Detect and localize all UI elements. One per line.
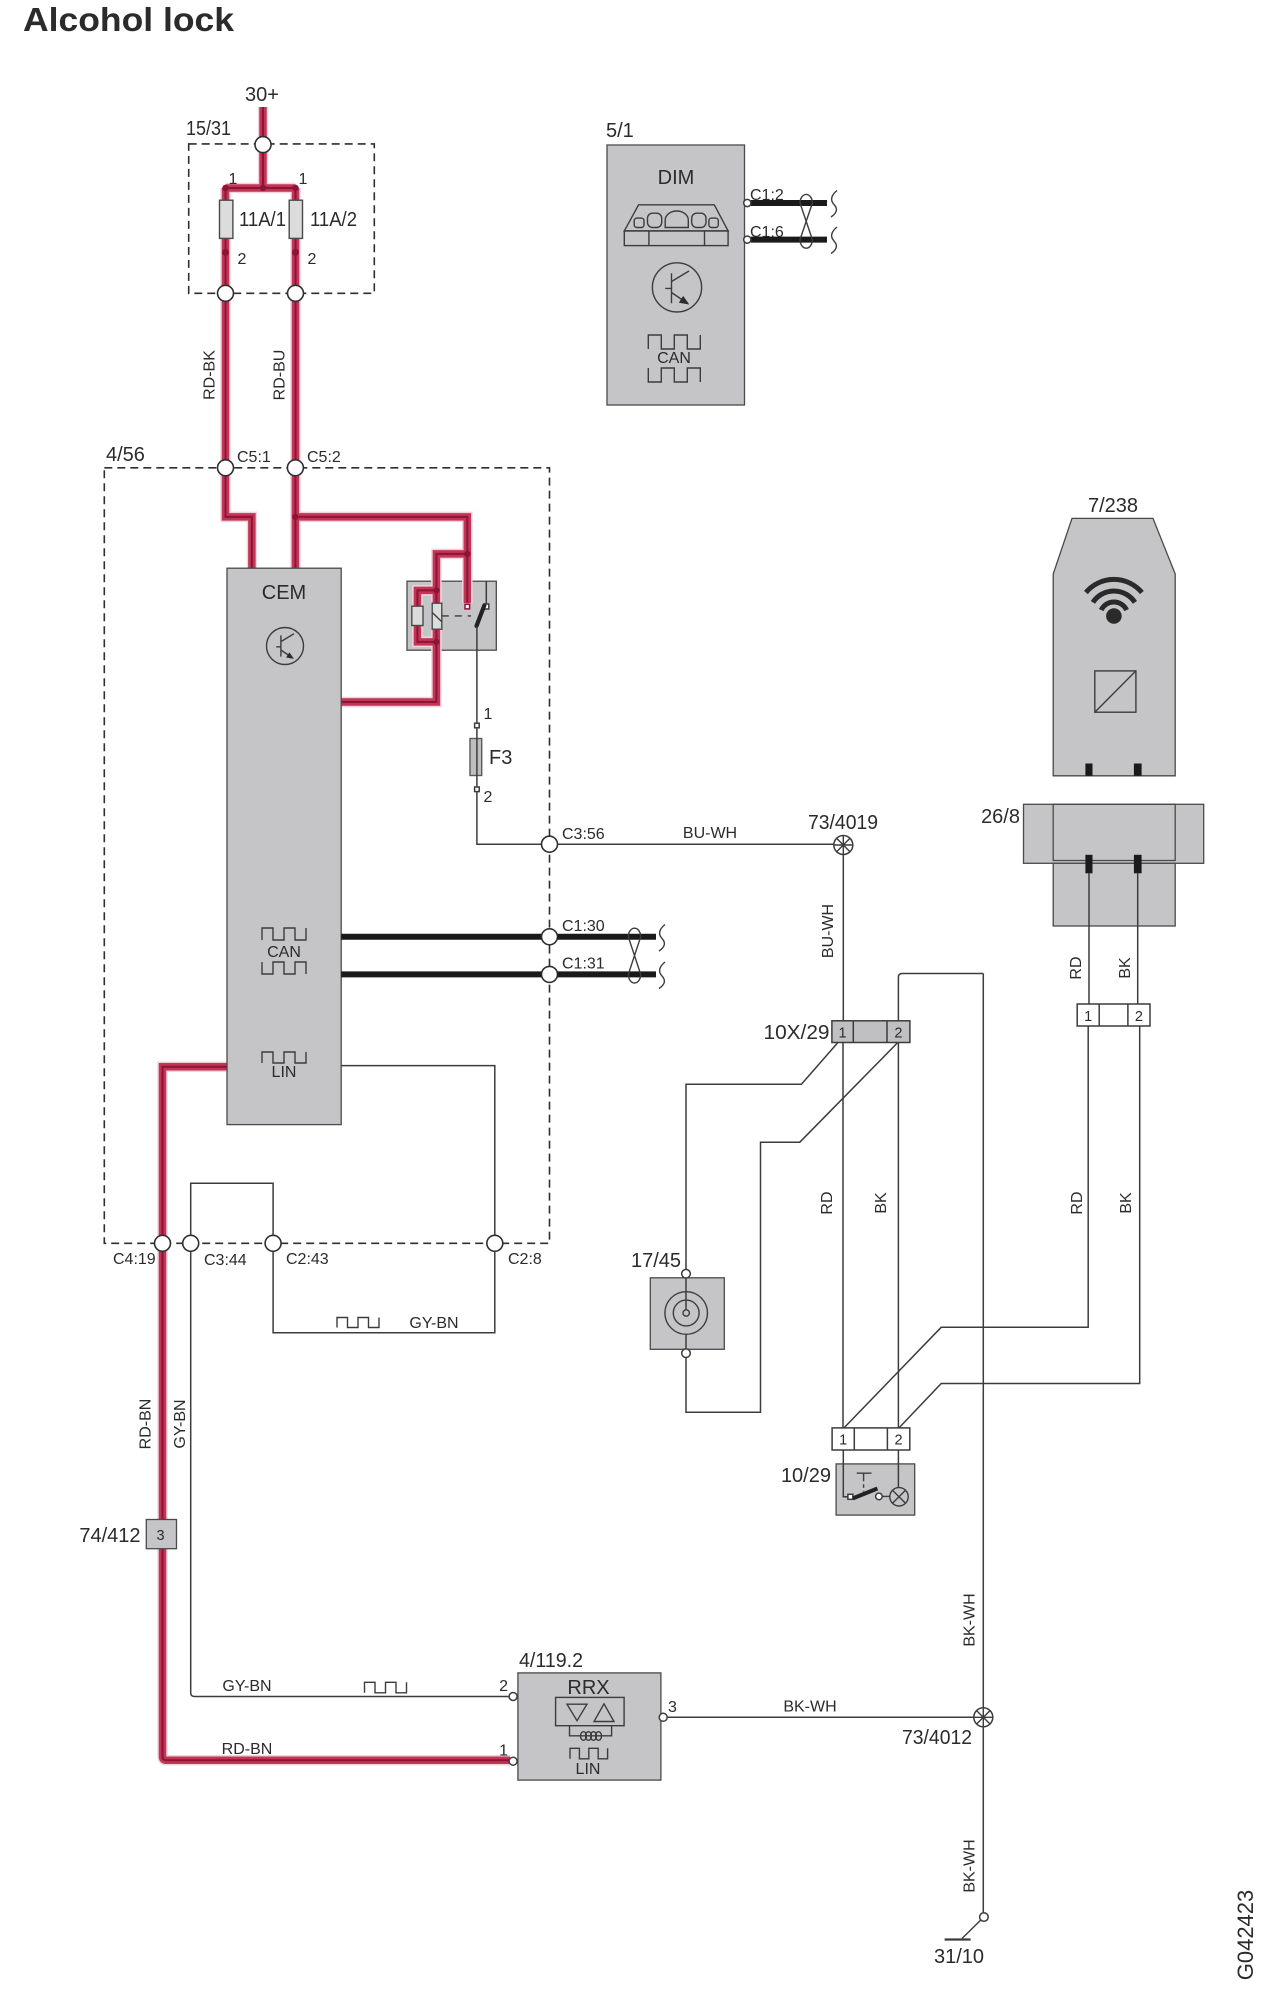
junction relay branch bbox=[464, 551, 470, 557]
svg-text:G042423: G042423 bbox=[1233, 1890, 1258, 1981]
svg-text:BK: BK bbox=[1118, 1192, 1135, 1214]
svg-text:73/4019: 73/4019 bbox=[808, 812, 878, 834]
junction coil top bbox=[433, 587, 439, 593]
svg-text:4/56: 4/56 bbox=[106, 444, 145, 466]
connector C4:19 bbox=[155, 1235, 171, 1251]
svg-text:C3:44: C3:44 bbox=[204, 1252, 247, 1269]
icon LIN pulse on GY-BN bbox=[365, 1682, 407, 1693]
svg-text:C5:2: C5:2 bbox=[307, 449, 341, 466]
pin 2 RRX bbox=[509, 1693, 517, 1701]
icon transistor DIM bbox=[652, 263, 701, 312]
wire CAN low CEM bbox=[341, 971, 541, 977]
connector C2:8 bbox=[487, 1235, 503, 1251]
pin C1:6 bbox=[744, 236, 751, 243]
relay switch terminals bbox=[465, 604, 470, 609]
svg-text:2: 2 bbox=[484, 789, 493, 806]
relay box (under wires) bbox=[407, 581, 496, 650]
svg-text:1: 1 bbox=[499, 1743, 508, 1760]
relay switch blade bbox=[477, 606, 485, 627]
svg-text:1: 1 bbox=[229, 171, 238, 188]
relay actuation dashed bbox=[442, 615, 471, 617]
svg-text:RD-BK: RD-BK bbox=[202, 350, 219, 400]
svg-text:C5:1: C5:1 bbox=[237, 449, 271, 466]
junction C5:2 branch bbox=[292, 514, 298, 520]
icon RRX arrows box bbox=[556, 1697, 625, 1735]
svg-text:GY-BN: GY-BN bbox=[172, 1399, 189, 1448]
svg-text:LIN: LIN bbox=[272, 1064, 297, 1081]
svg-text:2: 2 bbox=[1135, 1009, 1143, 1025]
wire CAN stubs bbox=[558, 934, 657, 940]
svg-text:F3: F3 bbox=[489, 747, 512, 769]
svg-text:BK-WH: BK-WH bbox=[783, 1699, 836, 1716]
svg-text:2: 2 bbox=[894, 1026, 902, 1042]
wire BU-WH to splice bbox=[558, 843, 835, 845]
wire relay to F3 bbox=[477, 627, 541, 845]
ecu box 4/56 dashed bbox=[104, 468, 549, 1244]
svg-text:C3:56: C3:56 bbox=[562, 826, 605, 843]
wire RD 10X/29 to 10/29 bbox=[842, 1043, 844, 1428]
relay coil bbox=[432, 603, 442, 629]
icon diode square bbox=[1095, 671, 1136, 712]
module CEM bbox=[227, 568, 341, 1124]
svg-text:1: 1 bbox=[484, 706, 493, 723]
icon LIN pulse on loop bbox=[337, 1318, 379, 1328]
svg-text:2: 2 bbox=[499, 1678, 508, 1695]
svg-text:7/238: 7/238 bbox=[1088, 495, 1138, 517]
svg-text:RD-BN: RD-BN bbox=[222, 1741, 273, 1758]
svg-text:BK: BK bbox=[1117, 957, 1134, 979]
icon LIN pulse RRX bbox=[570, 1748, 608, 1759]
junction coil bottom bbox=[433, 639, 439, 645]
svg-text:BK: BK bbox=[873, 1192, 890, 1214]
icon CAN DIM bbox=[648, 335, 700, 382]
wire connector to lamp bbox=[897, 1450, 899, 1488]
wire 17/45 to 10X/29 pin2 bbox=[686, 1043, 897, 1412]
wire GY-BN loop below bbox=[273, 1251, 495, 1332]
fuse 11A/1 bbox=[220, 200, 233, 238]
lamp 10/29 bbox=[876, 1488, 909, 1506]
connector C5:1 bbox=[218, 460, 234, 476]
wire CAN high DIM bbox=[751, 200, 827, 206]
relay switch pivot line bbox=[485, 581, 487, 604]
pin 2 terminal fuse 11A/1 bbox=[222, 249, 229, 256]
connector 26/8 pins 1 2 bbox=[1077, 1004, 1150, 1026]
svg-text:73/4012: 73/4012 bbox=[902, 1727, 972, 1749]
svg-text:RRX: RRX bbox=[567, 1677, 609, 1699]
svg-text:3: 3 bbox=[668, 1699, 677, 1716]
wire BK 26/8 down bbox=[1137, 873, 1139, 1004]
junction fuse 11A/2 pin 1 bbox=[292, 185, 298, 191]
svg-text:15/31: 15/31 bbox=[186, 118, 231, 140]
wire RD 26/8 to 10/29 bbox=[844, 1026, 1088, 1428]
svg-text:C1:31: C1:31 bbox=[562, 956, 605, 973]
svg-text:GY-BN: GY-BN bbox=[409, 1315, 458, 1332]
pin C1:2 bbox=[744, 199, 751, 206]
pin 1 RRX bbox=[509, 1757, 517, 1765]
icon RRX coil bbox=[581, 1732, 602, 1741]
svg-text:RD-BN: RD-BN bbox=[138, 1399, 155, 1450]
connector 15/31 out right bbox=[288, 285, 304, 301]
wire BK 26/8 to 10/29 bbox=[899, 1026, 1140, 1428]
svg-text:CAN: CAN bbox=[657, 350, 691, 367]
icon instrument cluster bbox=[624, 205, 728, 246]
svg-text:RD: RD bbox=[1068, 956, 1085, 979]
svg-text:4/119.2: 4/119.2 bbox=[519, 1650, 583, 1672]
svg-text:3: 3 bbox=[156, 1528, 164, 1544]
connector 15/31 out left bbox=[218, 285, 234, 301]
connector C1:30 bbox=[542, 929, 558, 945]
svg-text:31/10: 31/10 bbox=[934, 1946, 984, 1968]
switch actuator bbox=[857, 1473, 872, 1478]
pin 2 F3 bbox=[475, 787, 480, 792]
icon transistor CEM bbox=[267, 628, 304, 665]
switch blade 10/29 bbox=[848, 1494, 853, 1499]
svg-text:2: 2 bbox=[895, 1433, 903, 1449]
svg-text:5/1: 5/1 bbox=[606, 120, 634, 142]
twisted pair symbol CAN bbox=[628, 925, 665, 989]
junction 30+ T bbox=[260, 185, 266, 191]
wire RD 26/8 down bbox=[1088, 873, 1090, 1004]
wire BK 10X/29 to 10/29 bbox=[897, 1043, 899, 1428]
svg-text:Alcohol lock: Alcohol lock bbox=[23, 1, 235, 38]
svg-text:LIN: LIN bbox=[576, 1761, 601, 1778]
svg-text:11A/2: 11A/2 bbox=[310, 209, 357, 231]
svg-text:GY-BN: GY-BN bbox=[222, 1678, 271, 1695]
splice 73/4019 bbox=[834, 836, 853, 855]
wire GY-BN to RRX pin 2 bbox=[191, 1251, 509, 1696]
splice 73/4012 bbox=[974, 1708, 993, 1727]
wire LIN out right bbox=[341, 1066, 495, 1244]
wire jumper C3:44 to C2:43 bbox=[191, 1183, 273, 1243]
svg-text:C2:8: C2:8 bbox=[508, 1251, 542, 1268]
connector C1:31 bbox=[542, 966, 558, 982]
svg-text:C1:30: C1:30 bbox=[562, 918, 605, 935]
wire BK-WH splice up bbox=[982, 974, 984, 1708]
connector C3:56 bbox=[542, 836, 558, 852]
svg-text:CAN: CAN bbox=[267, 944, 301, 961]
icon LIN CEM bbox=[262, 1052, 306, 1063]
svg-text:C2:43: C2:43 bbox=[286, 1251, 329, 1268]
svg-text:17/45: 17/45 bbox=[631, 1250, 681, 1272]
svg-text:74/412: 74/412 bbox=[79, 1525, 140, 1547]
svg-text:BU-WH: BU-WH bbox=[820, 904, 837, 958]
svg-text:1: 1 bbox=[299, 171, 308, 188]
wire connector to switch bbox=[843, 1450, 848, 1497]
svg-text:BK-WH: BK-WH bbox=[962, 1593, 979, 1646]
node 30+ connector bbox=[255, 137, 271, 153]
svg-text:26/8: 26/8 bbox=[981, 806, 1020, 828]
svg-text:BK-WH: BK-WH bbox=[962, 1839, 979, 1892]
svg-text:BU-WH: BU-WH bbox=[683, 825, 737, 842]
connector C2:43 bbox=[265, 1235, 281, 1251]
svg-text:C4:19: C4:19 bbox=[113, 1251, 156, 1268]
svg-text:10X/29: 10X/29 bbox=[764, 1022, 830, 1044]
connector C5:2 bbox=[287, 460, 303, 476]
svg-text:10/29: 10/29 bbox=[781, 1465, 831, 1487]
relay resistor bbox=[412, 606, 423, 625]
wire BK-WH RRX to splice bbox=[667, 1716, 974, 1718]
svg-text:RD: RD bbox=[819, 1191, 836, 1214]
pins 7/238 bbox=[1085, 764, 1092, 776]
wire 10X/29 pin2 up-over bbox=[898, 974, 983, 1021]
icon wifi bbox=[1086, 579, 1142, 623]
connector 10/29 pins bbox=[832, 1428, 910, 1450]
svg-text:RD: RD bbox=[1069, 1191, 1086, 1214]
twisted pair symbol DIM bbox=[800, 191, 837, 254]
wire BK-WH splice down to ground bbox=[982, 1727, 984, 1913]
pin 3 RRX bbox=[659, 1713, 667, 1721]
ground 31/10 bbox=[945, 1913, 989, 1940]
svg-text:30+: 30+ bbox=[245, 84, 279, 106]
svg-text:CEM: CEM bbox=[262, 582, 306, 604]
pins 26/8 bbox=[1085, 855, 1092, 874]
junction fuse 11A/1 pin 1 bbox=[222, 185, 228, 191]
connector C3:44 bbox=[183, 1235, 199, 1251]
wire CAN low DIM bbox=[751, 237, 827, 243]
svg-text:RD-BU: RD-BU bbox=[272, 350, 289, 401]
wire CAN high CEM bbox=[341, 934, 541, 940]
svg-text:11A/1: 11A/1 bbox=[239, 209, 286, 231]
pin 1 F3 bbox=[475, 723, 480, 728]
pin 2 terminal fuse 11A/2 bbox=[292, 249, 299, 256]
svg-text:2: 2 bbox=[238, 251, 247, 268]
fuse F3 body bbox=[470, 739, 482, 776]
icon CAN CEM bbox=[262, 928, 306, 974]
svg-text:2: 2 bbox=[308, 251, 317, 268]
fuse 11A/2 bbox=[289, 200, 302, 238]
svg-text:DIM: DIM bbox=[658, 167, 695, 189]
wire 10X/29 pin1 to 17/45 bbox=[686, 1043, 838, 1269]
svg-text:1: 1 bbox=[839, 1026, 847, 1042]
svg-text:1: 1 bbox=[839, 1433, 847, 1449]
fusebox 15/31 dashed bbox=[189, 144, 375, 293]
svg-text:1: 1 bbox=[1084, 1009, 1092, 1025]
wire BU-WH down bbox=[842, 855, 844, 1021]
